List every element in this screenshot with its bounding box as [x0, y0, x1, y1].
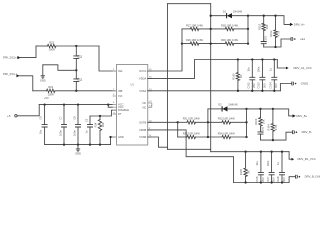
- svg-text:D1: D1: [223, 10, 227, 14]
- connector DRV_B_VCC: [292, 157, 316, 161]
- wire emitter B bus: [261, 132, 293, 140]
- svg-text:4.7K: 4.7K: [277, 31, 281, 37]
- svg-text:R102: R102: [269, 30, 273, 37]
- svg-text:GND: GND: [40, 78, 46, 82]
- wire J2 to riser: [20, 76, 33, 91]
- wire R24 bottom: [99, 131, 101, 145]
- wire OUTA to bus: [148, 29, 182, 71]
- wire gate B net: [247, 109, 293, 116]
- svg-text:INA: INA: [118, 69, 123, 73]
- junction diode A mid bus: [210, 15, 212, 17]
- capacitor C7 100n: [58, 105, 67, 145]
- wire R105 bottom: [245, 176, 247, 182]
- svg-text:10u: 10u: [247, 67, 251, 72]
- junction node N3 cap midpoint: [75, 69, 77, 71]
- resistor R22 100R: [47, 40, 56, 51]
- junction B bus R105: [244, 151, 246, 153]
- capacitor C104 100n: [269, 60, 279, 91]
- svg-text:NC: NC: [142, 105, 146, 109]
- junction B row1 mid bus: [207, 121, 209, 123]
- junction B bus C108: [281, 151, 283, 153]
- wire row2 mid: [199, 43, 225, 45]
- wire VDDA to rail: [148, 60, 278, 79]
- wire row1 right: [234, 28, 248, 30]
- wire diode row A right: [232, 15, 248, 17]
- svg-text:50V: 50V: [274, 83, 278, 88]
- capacitor C105 1n: [258, 126, 265, 140]
- junction B rail R105: [244, 181, 246, 183]
- op-amp U1 gate driver IC: [117, 65, 148, 146]
- svg-text:U1: U1: [131, 83, 135, 87]
- capacitor C3 1n: [73, 46, 83, 70]
- wire B row1 right: [231, 121, 247, 123]
- pin stubs U1 right: [148, 71, 152, 137]
- wire riser to R23: [33, 90, 47, 92]
- svg-text:10u: 10u: [38, 129, 42, 134]
- svg-text:VDDA: VDDA: [139, 76, 146, 80]
- wire B row2 left: [178, 136, 187, 138]
- wire long vertical left: [167, 4, 169, 150]
- svg-text:DT: DT: [118, 112, 122, 116]
- diode D1 1N4148: [223, 10, 243, 19]
- wire B bottom rail: [234, 182, 290, 184]
- wire VDDB feed: [148, 130, 234, 183]
- connector DRV_B_GND: [296, 175, 320, 179]
- connector J2 PRI_DC(-) input: [3, 72, 20, 78]
- resistor R32 10R: [218, 117, 236, 124]
- svg-text:50V: 50V: [282, 177, 286, 182]
- ground GND2 rail: [75, 145, 81, 156]
- svg-text:D2: D2: [218, 103, 222, 107]
- capacitor C5 1n: [84, 116, 93, 145]
- capacitor C8 100n: [72, 105, 81, 145]
- svg-text:R24: R24: [94, 122, 98, 127]
- wire emitter A bus: [264, 39, 291, 47]
- svg-text:OUTB: OUTB: [139, 121, 146, 125]
- junction VDDA C103: [261, 58, 263, 60]
- wire diode row B left: [208, 108, 222, 110]
- svg-text:PRI_DC(+): PRI_DC(+): [3, 56, 18, 60]
- svg-text:+5: +5: [7, 114, 11, 118]
- wire NC bracket: [151, 103, 153, 107]
- junction VDDA C102: [251, 58, 253, 60]
- svg-text:R29 10R 1/4W: R29 10R 1/4W: [186, 38, 204, 42]
- wire OUTB to bus: [148, 121, 178, 123]
- wire right bus B: [246, 109, 248, 137]
- junction rail C8: [77, 143, 79, 145]
- junction VDDA C104: [273, 58, 275, 60]
- capacitor C106 10u: [255, 152, 265, 183]
- resistor R28 10R: [221, 23, 239, 30]
- svg-text:1N4148: 1N4148: [228, 103, 238, 107]
- junction VSSA R100: [237, 90, 239, 92]
- junction B bus C106: [260, 151, 262, 153]
- svg-text:100n: 100n: [72, 130, 76, 136]
- svg-text:100R: 100R: [48, 92, 54, 96]
- svg-text:100R: 100R: [49, 48, 55, 52]
- svg-text:VSSA: VSSA: [139, 89, 146, 93]
- junction row1 right bus: [247, 28, 249, 30]
- resistor R31 10R: [183, 117, 201, 124]
- junction row2 mid bus: [210, 42, 212, 44]
- svg-text:1K: 1K: [247, 170, 251, 173]
- capacitor C108 100n: [276, 152, 286, 183]
- junction rail C7: [63, 143, 65, 145]
- svg-text:C5: C5: [84, 118, 88, 122]
- diode D2 1N4148: [218, 103, 238, 112]
- svg-text:C7: C7: [58, 116, 62, 120]
- svg-text:R31 10R 1/4W: R31 10R 1/4W: [183, 117, 201, 121]
- wire B supply top bus: [211, 151, 289, 153]
- wire right bus A: [247, 16, 249, 44]
- wire R102 top: [275, 16, 277, 30]
- resistor R30 10R: [221, 38, 239, 45]
- wire R102 bottom: [275, 37, 277, 47]
- junction emitter B: [272, 139, 274, 141]
- pin numbers U1: [113, 69, 153, 137]
- junction B row1 right bus: [245, 121, 247, 123]
- wire R103 top: [260, 109, 262, 118]
- wire node N1 to INA riser: [76, 45, 99, 47]
- svg-text:OUTA: OUTA: [139, 69, 146, 73]
- wire B bus to connector: [289, 152, 291, 160]
- resistor R33 10R: [183, 131, 201, 138]
- connector +E1: [291, 37, 305, 41]
- wire riser to R22: [36, 45, 47, 47]
- wire R23 to node N2: [55, 90, 76, 92]
- wire VCC pin2 drop: [108, 105, 112, 108]
- wire J1 to riser: [21, 46, 37, 58]
- wire R104 bottom: [272, 131, 274, 140]
- junction B rail C108: [281, 181, 283, 183]
- resistor R102 4.7K: [269, 30, 281, 38]
- connector J1 PRI_DC(+) input: [3, 56, 21, 60]
- capacitor C103 100n: [257, 60, 267, 91]
- connector DRV_B-: [293, 130, 312, 134]
- wire gate A net: [248, 16, 290, 25]
- svg-text:100n: 100n: [58, 130, 62, 136]
- wire row1 mid: [199, 28, 225, 30]
- capacitor C4 1n: [73, 70, 83, 91]
- junction VSSA C103: [261, 90, 263, 92]
- svg-text:10K: 10K: [101, 122, 105, 127]
- junction VDDA R100: [237, 58, 239, 60]
- svg-text:C104: C104: [269, 82, 273, 89]
- resistor R24 10K: [94, 120, 106, 131]
- wire row2 right: [234, 43, 248, 45]
- svg-text:C101: C101: [264, 36, 268, 43]
- svg-text:VDDB: VDDB: [139, 128, 146, 132]
- junction gate A RC2: [274, 15, 276, 17]
- junction node N1: [75, 45, 77, 47]
- junction VSSA C102: [251, 90, 253, 92]
- pin stubs U1 left: [113, 71, 117, 137]
- svg-text:R34 10R 1/4W: R34 10R 1/4W: [218, 131, 236, 135]
- svg-text:+E1: +E1: [300, 37, 305, 41]
- junction OUTB bus row1: [177, 121, 179, 123]
- svg-text:R104: R104: [267, 124, 271, 131]
- junction gate B RC1: [259, 108, 261, 110]
- junction GND pin: [109, 136, 111, 138]
- junction diode A right bus: [247, 15, 249, 17]
- connector DRV_A_VCC: [286, 66, 312, 70]
- wire rail to GND pin: [111, 137, 117, 145]
- capacitor C102 10u: [247, 60, 257, 91]
- wire row2 left: [182, 43, 190, 45]
- svg-text:+5V: +5V: [44, 96, 49, 100]
- svg-text:GND: GND: [75, 152, 81, 156]
- junction emitter A: [274, 46, 276, 48]
- capacitor C6 10u: [38, 105, 47, 145]
- wire R101 top: [263, 16, 265, 24]
- wire +5V bus: [39, 104, 112, 106]
- svg-text:1N4148: 1N4148: [233, 10, 243, 14]
- resistor R105 1K: [239, 168, 251, 176]
- svg-text:NC: NC: [142, 101, 146, 105]
- wire VSSA to connector: [280, 84, 291, 91]
- svg-text:R22: R22: [49, 40, 54, 44]
- wire loop bottom VSSB net: [168, 148, 211, 150]
- svg-text:DRV_A+: DRV_A+: [294, 22, 305, 26]
- svg-text:C6: C6: [38, 116, 42, 120]
- wire diode row B right: [227, 108, 246, 110]
- wire B row2 right: [231, 136, 247, 138]
- junction B rail C106: [260, 181, 262, 183]
- svg-text:R27 10R 1/4W: R27 10R 1/4W: [186, 23, 204, 27]
- ground GND1 left: [40, 65, 46, 83]
- svg-text:1K: 1K: [239, 75, 243, 78]
- svg-text:R30 10R 1/4W: R30 10R 1/4W: [221, 38, 239, 42]
- svg-text:DRV_B+: DRV_B+: [296, 114, 307, 118]
- svg-text:C106: C106: [255, 176, 259, 183]
- svg-text:4.7K: 4.7K: [274, 124, 278, 130]
- svg-text:DRV_A1_VCC: DRV_A1_VCC: [294, 66, 312, 70]
- svg-text:R105: R105: [239, 169, 243, 176]
- svg-text:C108: C108: [276, 176, 280, 183]
- junction diode B right bus: [245, 108, 247, 110]
- junction bus C7: [63, 103, 65, 105]
- junction node N2: [75, 90, 77, 92]
- svg-text:10K: 10K: [265, 24, 269, 29]
- svg-text:GND: GND: [118, 135, 124, 139]
- junction row2 right bus: [247, 42, 249, 44]
- wire R22 to node N1: [56, 45, 76, 47]
- svg-text:INB: INB: [118, 89, 123, 93]
- junction bus VCC pins: [107, 103, 109, 105]
- wire left ground rail: [45, 144, 111, 146]
- wire riser to pin INA: [99, 46, 117, 71]
- resistor R103 10K: [254, 118, 266, 127]
- junction OUTA bus row2: [181, 42, 183, 44]
- wire diode row A left: [211, 15, 227, 17]
- resistor R27 10R: [186, 23, 204, 30]
- junction B row2 right bus: [245, 136, 247, 138]
- wire R100 bottom: [237, 81, 239, 91]
- resistor R101 10K: [257, 23, 269, 30]
- wire R105 top: [245, 152, 247, 168]
- capacitor C101 1n: [261, 31, 268, 47]
- svg-text:C102: C102: [247, 82, 251, 89]
- junction row1 mid bus: [210, 28, 212, 30]
- junction B rail C107: [270, 181, 272, 183]
- junction rail R24: [99, 143, 101, 145]
- svg-text:DRV_B-: DRV_B-: [302, 130, 312, 134]
- svg-text:GND1: GND1: [301, 82, 309, 86]
- svg-text:25V: 25V: [261, 177, 265, 182]
- wire B rail to connector: [289, 177, 296, 183]
- wire ground branch: [43, 65, 77, 71]
- wire VSSB tie: [148, 137, 168, 147]
- svg-text:DISABLE: DISABLE: [118, 108, 129, 112]
- svg-text:R28 10R 1/4W: R28 10R 1/4W: [221, 23, 239, 27]
- wire loop top: [168, 3, 211, 5]
- svg-text:50V: 50V: [262, 83, 266, 88]
- wire node N2 to pin INB: [76, 90, 116, 92]
- svg-text:R103: R103: [254, 118, 258, 125]
- wire row1 left: [182, 28, 190, 30]
- connector DRV_B+ output: [293, 114, 308, 118]
- junction DIS branch R24: [99, 115, 101, 117]
- svg-text:R32 10R 1/4W: R32 10R 1/4W: [218, 117, 236, 121]
- svg-text:R100: R100: [232, 73, 236, 80]
- svg-text:C107: C107: [266, 176, 270, 183]
- connector DRV_A+ output: [290, 22, 305, 26]
- resistor R34 10R: [218, 131, 236, 138]
- svg-text:DRV_B_GND: DRV_B_GND: [305, 175, 320, 179]
- resistor R100 1K: [232, 73, 244, 81]
- svg-text:100n: 100n: [257, 66, 261, 72]
- junction bus C8: [77, 103, 79, 105]
- svg-text:C8: C8: [72, 116, 76, 120]
- capacitor C107 100n: [266, 152, 276, 183]
- wire R100 top: [237, 60, 239, 73]
- svg-text:10u: 10u: [255, 161, 259, 166]
- wire J3 to bus riser: [17, 105, 39, 116]
- svg-text:R101: R101: [257, 23, 261, 30]
- wire B row1 mid: [196, 121, 222, 123]
- junction gate A RC1: [263, 15, 265, 17]
- junction B row2 mid bus: [207, 136, 209, 138]
- wire VSSA rail: [148, 90, 281, 92]
- svg-text:100n: 100n: [266, 160, 270, 166]
- wire DIS pin branch: [90, 110, 117, 116]
- connector GND1: [292, 82, 309, 86]
- wire VDDA to connector: [277, 60, 286, 69]
- wire R24 top: [99, 116, 101, 120]
- svg-text:R33 10R 1/4W: R33 10R 1/4W: [183, 131, 201, 135]
- junction bus C6: [43, 103, 45, 105]
- junction B bus C107: [270, 151, 272, 153]
- svg-text:PRI_DC(-): PRI_DC(-): [3, 72, 17, 76]
- junction VSSA C104: [273, 90, 275, 92]
- resistor R29 10R: [186, 38, 204, 45]
- wire B row1 left: [178, 121, 187, 123]
- wire R104 top: [272, 109, 274, 123]
- svg-text:C105: C105: [260, 126, 264, 133]
- svg-text:C103: C103: [257, 82, 261, 89]
- svg-text:VSSB: VSSB: [139, 135, 146, 139]
- wire B row2 mid: [196, 136, 222, 138]
- junction gate B RC2: [272, 108, 274, 110]
- svg-text:50V: 50V: [272, 177, 276, 182]
- junction rail C5: [89, 143, 91, 145]
- svg-text:DRV_B1_VCC: DRV_B1_VCC: [298, 157, 316, 161]
- svg-text:VCI: VCI: [118, 94, 123, 98]
- wire long vertical right / gate bus A: [210, 4, 212, 152]
- svg-text:R23: R23: [48, 85, 53, 89]
- connector J3 +5V input: [7, 114, 17, 118]
- svg-text:25V: 25V: [252, 83, 256, 88]
- resistor R23 100R: [46, 85, 55, 96]
- svg-text:10K: 10K: [262, 119, 266, 124]
- wire B mid bus: [207, 109, 209, 137]
- wire B left bus: [177, 122, 179, 137]
- resistor R104 4.7K: [267, 124, 279, 132]
